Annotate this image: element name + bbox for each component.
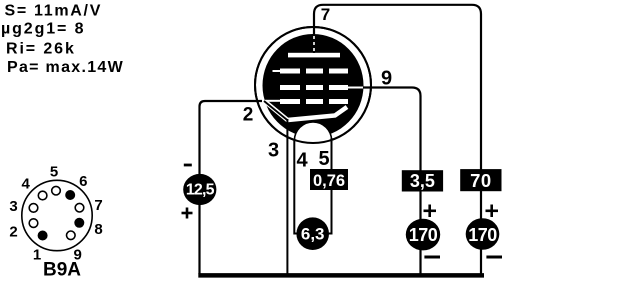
- svg-text:µg2g1= 8: µg2g1= 8: [1, 21, 85, 38]
- svg-text:9: 9: [381, 68, 392, 90]
- minus sign M4: [486, 256, 502, 259]
- svg-text:5: 5: [318, 148, 329, 170]
- svg-text:5: 5: [50, 164, 58, 181]
- svg-text:Pa= max.14W: Pa= max.14W: [7, 59, 124, 76]
- svg-text:8: 8: [94, 221, 102, 238]
- svg-text:Ri= 26k: Ri= 26k: [6, 41, 76, 58]
- heater filament: [294, 122, 331, 144]
- wire pin3 vertical: [286, 119, 288, 275]
- box 3,5 screen current: [402, 170, 443, 191]
- socket pin 4: [38, 191, 47, 200]
- svg-text:3: 3: [9, 198, 17, 215]
- minus sign M1: [184, 164, 192, 167]
- socket pin 3: [29, 204, 38, 213]
- socket pin 7: [75, 203, 84, 212]
- socket pin 8: [74, 218, 84, 228]
- meter M3 170V screen: [406, 219, 440, 251]
- svg-text:7: 7: [94, 197, 102, 214]
- svg-text:S= 11mA/V: S= 11mA/V: [5, 3, 103, 20]
- bus ground rail: [198, 273, 484, 278]
- box 70 anode current: [460, 169, 501, 191]
- wire g1 to pin2 and left rail: [200, 101, 263, 274]
- svg-text:6,3: 6,3: [301, 225, 325, 244]
- svg-text:2: 2: [243, 105, 254, 126]
- meter M1 12.5V cathode: [183, 174, 216, 205]
- svg-text:B9A: B9A: [43, 260, 81, 281]
- anode plate bar: [288, 53, 340, 58]
- B9A socket outline: [22, 180, 92, 250]
- socket pin 1: [38, 231, 48, 241]
- plus sign M3: [424, 205, 437, 218]
- minus sign M3: [424, 256, 440, 259]
- grid g1 row: [263, 99, 349, 104]
- socket pin 6: [65, 190, 75, 200]
- plus sign M1: [182, 208, 193, 219]
- grid g3 row: [273, 69, 349, 74]
- svg-text:170: 170: [409, 225, 438, 245]
- grid g2 row: [280, 85, 364, 90]
- wire anode pin7 top rail: [314, 5, 481, 274]
- meter M4 170V anode: [466, 218, 500, 250]
- box 0,76 heater current: [310, 169, 348, 190]
- wire cathode lead to pin3: [264, 101, 288, 121]
- plus sign M4: [486, 205, 499, 218]
- socket pin 5: [52, 186, 61, 195]
- wire pin4 heater: [294, 139, 298, 234]
- wire pin5 heater: [327, 138, 332, 234]
- svg-text:2: 2: [9, 223, 17, 240]
- svg-text:3: 3: [268, 140, 279, 162]
- anode lead dashed inside tube: [313, 36, 315, 52]
- svg-text:3,5: 3,5: [410, 171, 435, 191]
- svg-text:0,76: 0,76: [313, 172, 345, 190]
- svg-text:7: 7: [321, 5, 330, 24]
- svg-text:4: 4: [296, 150, 308, 172]
- tube envelope outline overlay: [255, 27, 371, 143]
- svg-text:70: 70: [470, 170, 492, 191]
- tube interior black disc: [263, 34, 364, 137]
- socket pin 2: [29, 219, 38, 228]
- meter M2 6.3V heater: [296, 217, 329, 250]
- svg-text:170: 170: [468, 225, 497, 245]
- tube V1 envelope: [255, 27, 371, 143]
- socket pin 9: [67, 231, 76, 240]
- cathode: [265, 102, 347, 121]
- svg-text:4: 4: [22, 175, 31, 192]
- svg-text:12,5: 12,5: [186, 181, 215, 198]
- wire g2 to pin9: [363, 88, 421, 275]
- svg-text:1: 1: [33, 247, 41, 264]
- svg-text:6: 6: [79, 173, 87, 190]
